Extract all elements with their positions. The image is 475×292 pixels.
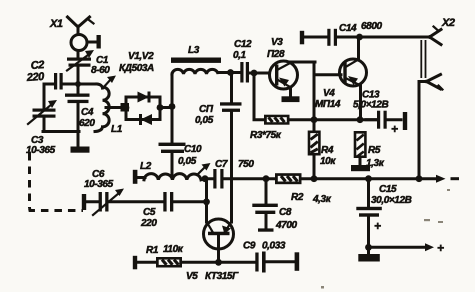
ground tank: [71, 132, 90, 153]
capacitor C6 variable: [93, 189, 124, 216]
node R5 top: [357, 116, 364, 123]
svg-text:750: 750: [238, 159, 254, 170]
node rail C8: [263, 175, 270, 182]
svg-text:6800: 6800: [361, 21, 382, 32]
inductor L3 core bar: [171, 58, 221, 63]
node rail X2: [416, 175, 423, 182]
capacitor C11: [220, 73, 242, 180]
resistor R3: [254, 73, 290, 125]
label L1: [111, 124, 123, 135]
svg-text:+: +: [437, 241, 444, 255]
svg-text:0,05: 0,05: [195, 115, 214, 126]
svg-text:R3*75к: R3*75к: [250, 130, 282, 141]
label C5: [140, 207, 157, 229]
transistor V5: [204, 179, 234, 263]
node rail R4: [311, 175, 318, 182]
label C14: [339, 21, 382, 34]
wire C1 to node A: [77, 67, 80, 96]
resistor R1: [156, 257, 182, 268]
node diode left: [123, 104, 130, 111]
svg-text:8-60: 8-60: [91, 65, 110, 76]
svg-text:C5: C5: [143, 207, 156, 218]
ground C15: [358, 247, 380, 261]
capacitor C1 trimmer: [67, 50, 94, 71]
svg-text:X2: X2: [441, 17, 455, 29]
label R4: [320, 145, 336, 167]
svg-text:R5: R5: [368, 145, 381, 156]
svg-text:R2: R2: [291, 192, 304, 203]
resistor R2: [275, 173, 302, 184]
label C11: [195, 104, 214, 126]
node trunk tap: [169, 103, 176, 110]
transistor V4: [340, 37, 367, 120]
capacitor C3 variable: [28, 100, 57, 124]
capacitor C12: [240, 62, 269, 83]
wire X2 down: [418, 82, 421, 180]
label V4: [315, 88, 341, 110]
terminal C6 left: [82, 194, 99, 210]
label C7: [215, 159, 254, 170]
svg-text:С10: С10: [184, 144, 202, 155]
inductor L1: [78, 84, 109, 132]
wire C3 to bottom rail: [43, 118, 46, 132]
svg-text:+: +: [374, 219, 381, 233]
wire L1 tap: [106, 106, 122, 109]
connector X2 top fork: [430, 27, 442, 45]
node C7 left: [202, 175, 209, 182]
svg-text:+: +: [391, 122, 398, 136]
terminal L2 left: [133, 170, 145, 184]
svg-text:4,3к: 4,3к: [312, 194, 332, 205]
svg-text:C14: C14: [339, 23, 357, 34]
label R1: [146, 244, 184, 256]
transistor V3: [270, 61, 298, 89]
label C13: [353, 90, 388, 111]
svg-text:V3: V3: [271, 37, 283, 48]
label C4: [79, 107, 95, 129]
wire node to C12: [231, 71, 241, 74]
label C10: [178, 144, 202, 167]
svg-text:L3: L3: [188, 45, 200, 56]
label C2: [25, 59, 45, 84]
connector X2 bottom fork: [419, 75, 443, 90]
capacitor C5: [109, 192, 207, 212]
svg-text:4700: 4700: [275, 220, 297, 231]
mechanical gang dashed link: [30, 153, 84, 211]
svg-text:L2: L2: [140, 161, 152, 172]
connector X1 pin terminal: [87, 35, 101, 49]
label C9: [243, 241, 286, 252]
label C8: [275, 207, 297, 231]
capacitor C10: [159, 143, 186, 178]
wire C7 stubs: [205, 177, 232, 180]
connector X1 label: [49, 18, 63, 30]
node R3 base tap: [251, 70, 258, 77]
svg-text:620: 620: [79, 118, 95, 129]
capacitor C7: [213, 169, 223, 189]
node V5 collector C5: [203, 198, 210, 205]
label V3: [267, 37, 285, 60]
label X2: [441, 17, 455, 29]
svg-text:30,0×12В: 30,0×12В: [371, 195, 412, 206]
svg-text:110к: 110к: [163, 244, 184, 255]
node rail C15: [365, 175, 372, 182]
svg-text:V1,V2: V1,V2: [128, 51, 154, 62]
svg-text:С9: С9: [243, 241, 256, 252]
svg-text:220: 220: [140, 218, 157, 229]
supply minus arrow: [419, 175, 459, 183]
supply plus arrow: [369, 241, 445, 255]
wire V3 collector trunk down: [313, 62, 316, 128]
inductor L3: [172, 69, 229, 74]
wire diode to trunk: [160, 106, 172, 109]
capacitor C4: [65, 94, 90, 133]
wire left branch down: [43, 84, 46, 110]
inductor L2: [144, 174, 205, 180]
node R4 top: [311, 116, 318, 123]
L2 core arrow: [198, 163, 211, 174]
wire trunk L3 down: [171, 74, 174, 144]
svg-text:0,033: 0,033: [262, 241, 286, 252]
svg-text:220: 220: [25, 71, 45, 84]
capacitor C2: [44, 73, 78, 90]
label C3: [26, 135, 56, 156]
svg-text:L1: L1: [111, 124, 123, 135]
label R2: [291, 192, 332, 205]
connector X2 plug lines: [421, 40, 425, 78]
svg-text:МП14: МП14: [315, 99, 341, 110]
scan specks: [321, 189, 450, 289]
label V5: [186, 271, 239, 282]
svg-text:C7: C7: [215, 159, 228, 170]
diode pair loop V1 V2: [126, 97, 160, 120]
svg-text:СП: СП: [199, 104, 214, 115]
label C1: [91, 55, 110, 76]
wire V4 base: [314, 73, 341, 76]
terminal C14 left: [300, 31, 327, 45]
svg-text:С15: С15: [379, 184, 397, 195]
node V5 base: [215, 259, 222, 266]
resistor R4: [308, 120, 321, 179]
svg-text:R4: R4: [321, 145, 334, 156]
label C6: [84, 169, 114, 190]
wire minus rail: [232, 177, 419, 180]
svg-text:5,0×12В: 5,0×12В: [353, 100, 388, 111]
label C15: [371, 184, 412, 206]
wire V3 collector: [290, 61, 315, 64]
svg-text:X1: X1: [49, 18, 63, 30]
capacitor C13: [366, 111, 407, 136]
svg-text:V5: V5: [186, 271, 198, 282]
node diode right: [157, 104, 164, 111]
wire tank bottom rail: [43, 130, 79, 133]
wire base rail: [182, 261, 256, 264]
label R5: [366, 145, 385, 169]
node A junction: [75, 81, 81, 87]
capacitor C9: [255, 252, 299, 273]
svg-text:0,05: 0,05: [178, 156, 197, 167]
ground V3 emitter: [282, 87, 300, 102]
svg-text:КД503А: КД503А: [119, 63, 154, 74]
label C12: [233, 39, 252, 61]
connector X1 socket circle: [71, 35, 87, 51]
svg-text:П28: П28: [267, 49, 285, 60]
capacitor C14: [327, 29, 429, 46]
label R3: [250, 130, 282, 141]
svg-text:C8: C8: [279, 207, 292, 218]
svg-text:C4: C4: [81, 107, 94, 118]
label V1,V2: [119, 51, 154, 74]
svg-text:R1: R1: [146, 245, 159, 256]
node plus rail: [365, 244, 372, 251]
diode V1: [138, 92, 151, 103]
capacitor C8: [252, 179, 277, 232]
svg-text:10-365: 10-365: [84, 179, 114, 190]
ground R5: [351, 158, 370, 171]
connector X1 antenna fork: [68, 17, 94, 34]
svg-text:10к: 10к: [320, 156, 336, 167]
capacitor C15: [356, 179, 382, 248]
wire bias rail: [289, 118, 378, 121]
label L2: [140, 161, 152, 172]
svg-text:С12: С12: [234, 39, 252, 50]
node C14 V4 collector: [356, 34, 363, 41]
L1 core arrow: [103, 76, 116, 89]
svg-text:КТ315Г: КТ315Г: [205, 271, 239, 282]
node L3 C12 C11: [227, 69, 234, 76]
wire antenna stem: [77, 51, 80, 60]
svg-text:0,1: 0,1: [233, 50, 247, 61]
node L1 tap square: [121, 103, 130, 112]
diode V2: [139, 114, 152, 125]
terminal R1 left: [133, 256, 157, 269]
svg-text:V4: V4: [323, 88, 335, 99]
svg-text:1,3к: 1,3к: [366, 158, 385, 169]
resistor R5: [354, 131, 367, 158]
label L3: [188, 45, 200, 56]
